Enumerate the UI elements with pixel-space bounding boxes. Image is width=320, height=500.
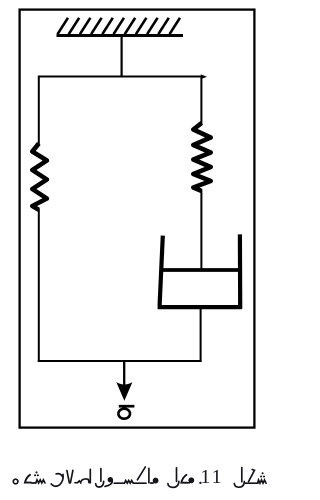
node joint nub at top right corner bbox=[201, 74, 207, 79]
damper cylinder bottom bbox=[158, 305, 242, 309]
top rail wire bbox=[38, 76, 202, 78]
spring K2 bbox=[193, 123, 210, 191]
damper cylinder left wall bbox=[160, 236, 163, 306]
fixed support hatching bbox=[58, 18, 181, 34]
wire right branch upper bbox=[200, 76, 202, 125]
spring K1 bbox=[32, 144, 47, 210]
wire left branch upper bbox=[38, 76, 40, 146]
caption: done word bbox=[13, 475, 45, 484]
svg-text:11: 11 bbox=[200, 466, 223, 488]
caption: model word bbox=[168, 468, 194, 488]
force arrow stem bbox=[123, 360, 125, 386]
wire below damper bbox=[200, 309, 202, 363]
wire left branch lower bbox=[38, 209, 40, 362]
damper piston bbox=[161, 268, 242, 272]
caption: shakl (figure) word bbox=[234, 468, 266, 488]
sigma stress label bbox=[118, 406, 134, 419]
damper piston rod bbox=[200, 190, 202, 269]
caption: figure number 11. bbox=[199, 482, 201, 484]
ceiling line bbox=[57, 34, 184, 37]
caption: maxwell word bbox=[96, 467, 158, 487]
bottom rail wire bbox=[38, 360, 202, 362]
caption: correction word bbox=[51, 469, 90, 486]
force arrow head bbox=[116, 382, 132, 401]
damper cylinder right wall bbox=[238, 234, 243, 309]
wire stem from ceiling bbox=[120, 36, 122, 78]
